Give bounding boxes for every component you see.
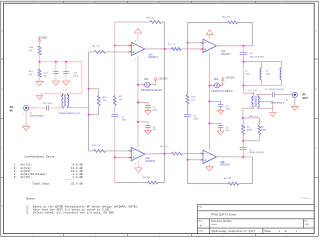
svg-text:FERRITE BEAD: FERRITE BEAD bbox=[211, 89, 232, 93]
power V+ U1A bbox=[135, 28, 142, 33]
junction bbox=[186, 42, 244, 47]
svg-text:3: 3 bbox=[159, 235, 160, 237]
svg-text:4: 4 bbox=[135, 164, 136, 166]
inductor L3 bbox=[266, 62, 282, 86]
svg-text:FB2: FB2 bbox=[214, 79, 219, 81]
wire bbox=[115, 182, 148, 184]
svg-text:100n: 100n bbox=[153, 110, 159, 112]
pin bbox=[213, 85, 221, 86]
svg-text:R5 511: R5 511 bbox=[223, 17, 231, 19]
op-amp U2B bbox=[200, 150, 231, 166]
svg-text:Sheet: Sheet bbox=[264, 230, 271, 233]
capacitor C1 bbox=[111, 115, 127, 122]
wire bbox=[294, 97, 296, 106]
svg-text:FB1: FB1 bbox=[144, 79, 149, 81]
resistor R3 bbox=[146, 17, 161, 23]
resistor R1 bbox=[242, 118, 253, 141]
svg-text:C13 100n: C13 100n bbox=[42, 103, 53, 105]
ground bbox=[217, 131, 223, 135]
wire bbox=[210, 84, 215, 86]
svg-text:R3 511: R3 511 bbox=[146, 17, 154, 19]
svg-text:3. Unless noted, all resistor: 3. Unless noted, all resistors are 1/8 w… bbox=[26, 211, 115, 215]
resistor R4 bbox=[143, 177, 158, 184]
ground bbox=[62, 81, 69, 85]
resistor R8 bbox=[161, 146, 182, 155]
resistor R6 bbox=[224, 178, 239, 185]
wire bbox=[89, 114, 99, 116]
wire bbox=[209, 164, 211, 167]
svg-text:+12VDC: +12VDC bbox=[37, 35, 47, 39]
wire bbox=[115, 156, 130, 158]
svg-text:4: 4 bbox=[260, 92, 261, 94]
op-amp U2A bbox=[200, 39, 232, 56]
wire bbox=[209, 53, 211, 151]
svg-text:100n: 100n bbox=[193, 119, 199, 121]
transformer T5 bbox=[248, 90, 261, 118]
svg-text:Rev: Rev bbox=[304, 221, 308, 223]
svg-text:8: 8 bbox=[135, 41, 136, 43]
pin bbox=[202, 153, 203, 161]
wire bbox=[182, 153, 203, 155]
capacitor C8 bbox=[240, 53, 265, 59]
wire bbox=[243, 92, 253, 94]
svg-text:Wednesday, September 27, 2017: Wednesday, September 27, 2017 bbox=[212, 229, 256, 233]
capacitor C5 bbox=[265, 89, 284, 97]
wire bbox=[114, 105, 116, 114]
ferrite bead FB1 bbox=[141, 79, 162, 92]
wire bbox=[164, 22, 166, 183]
wire bbox=[252, 157, 254, 184]
svg-text:SMA FEMALE: SMA FEMALE bbox=[30, 115, 45, 118]
junction bbox=[242, 117, 244, 142]
wire bbox=[258, 107, 273, 109]
svg-text:3: 3 bbox=[128, 158, 129, 160]
svg-text:C5 100N 1210 PKG: C5 100N 1210 PKG bbox=[265, 89, 284, 91]
svg-text:2: 2 bbox=[260, 99, 261, 101]
wire bbox=[138, 84, 145, 86]
svg-text:R10 22: R10 22 bbox=[92, 145, 100, 147]
capacitor C7 bbox=[138, 102, 158, 111]
op-amp U1B bbox=[128, 147, 156, 166]
svg-text:100n: 100n bbox=[122, 120, 128, 122]
wire bbox=[188, 42, 203, 44]
wire bbox=[88, 52, 90, 151]
svg-text:IN: IN bbox=[10, 108, 13, 112]
svg-text:Document Number: Document Number bbox=[211, 220, 232, 223]
wire bbox=[137, 56, 139, 148]
svg-text:3: 3 bbox=[128, 45, 129, 47]
wire bbox=[158, 182, 165, 184]
svg-text:4: 4 bbox=[135, 59, 136, 61]
text intermediary gains bbox=[14, 155, 83, 186]
ferrite bead FB2 bbox=[211, 79, 232, 93]
svg-text:R6 511: R6 511 bbox=[224, 178, 232, 180]
wire bbox=[243, 61, 281, 63]
pin bbox=[130, 150, 131, 158]
power +12VDC FB1 bbox=[154, 76, 167, 80]
svg-text:100u: 100u bbox=[266, 74, 272, 76]
svg-text:------: ------ bbox=[14, 179, 75, 182]
pin bbox=[143, 84, 151, 85]
svg-text:OPA2674: OPA2674 bbox=[148, 56, 159, 59]
capacitor C13 bbox=[42, 103, 53, 111]
wire bbox=[217, 45, 253, 47]
svg-text:7: 7 bbox=[146, 152, 147, 154]
svg-text:4: 4 bbox=[95, 235, 96, 237]
wire bbox=[39, 77, 41, 81]
svg-text:5: 5 bbox=[32, 235, 33, 237]
resistor R14 bbox=[29, 46, 41, 55]
svg-text:R7 22: R7 22 bbox=[168, 44, 176, 46]
power +12VDC left bbox=[37, 35, 47, 45]
svg-text:<Doc>: <Doc> bbox=[211, 223, 218, 226]
svg-text:100u: 100u bbox=[245, 74, 251, 76]
resistor R7 bbox=[168, 44, 181, 50]
wire bbox=[209, 35, 211, 40]
wire bbox=[115, 21, 150, 23]
wire bbox=[258, 101, 273, 112]
wire bbox=[137, 33, 139, 42]
svg-text:4: 4 bbox=[95, 2, 96, 4]
wire bbox=[242, 150, 244, 157]
junction bbox=[208, 84, 210, 124]
svg-text:1: 1 bbox=[286, 235, 287, 237]
resistor R5 bbox=[223, 17, 238, 24]
wire bbox=[105, 150, 130, 152]
junction bbox=[88, 88, 90, 116]
svg-text:DNL 1210 PKG: DNL 1210 PKG bbox=[250, 57, 265, 59]
capacitor C10 bbox=[44, 62, 59, 81]
svg-text:6: 6 bbox=[200, 153, 201, 155]
wire bbox=[145, 48, 172, 50]
wire bbox=[242, 55, 244, 94]
ground bbox=[217, 110, 223, 114]
svg-text:R4 511: R4 511 bbox=[143, 177, 151, 179]
wire bbox=[243, 108, 253, 118]
svg-text:1+1 : 1.31: 1+1 : 1.31 bbox=[248, 90, 258, 92]
svg-text:2: 2 bbox=[23, 114, 24, 116]
title block bbox=[198, 204, 315, 233]
svg-text:Total Gain: 32.0 dB: Total Gain: 32.0 dB bbox=[14, 182, 83, 186]
wire bbox=[188, 183, 229, 185]
pin bbox=[202, 42, 203, 50]
svg-text:100n: 100n bbox=[226, 109, 232, 111]
wire bbox=[114, 22, 116, 96]
wire bbox=[188, 21, 228, 23]
junction bbox=[114, 153, 166, 159]
ground bbox=[270, 113, 277, 117]
wire bbox=[89, 51, 95, 53]
svg-text:R9 22: R9 22 bbox=[92, 46, 100, 48]
capacitor C11 bbox=[63, 62, 79, 81]
svg-text:of: of bbox=[285, 230, 287, 233]
junction bbox=[114, 45, 166, 50]
wire bbox=[40, 61, 82, 63]
wire bbox=[115, 45, 130, 47]
junction bbox=[137, 84, 139, 123]
ground bbox=[292, 106, 299, 110]
wire bbox=[67, 107, 88, 109]
svg-text:Date:: Date: bbox=[198, 230, 203, 233]
svg-text:100n: 100n bbox=[73, 75, 79, 77]
wire bbox=[89, 88, 99, 90]
svg-text:2: 2 bbox=[222, 2, 223, 4]
svg-text:3: 3 bbox=[159, 2, 160, 4]
capacitor C2 bbox=[240, 148, 265, 155]
svg-text:FPGA SDR TX Driver: FPGA SDR TX Driver bbox=[211, 213, 236, 217]
capacitor C9 bbox=[184, 115, 199, 121]
ground bbox=[52, 81, 59, 85]
svg-text:1: 1 bbox=[146, 47, 147, 49]
resistor R10 bbox=[92, 145, 105, 152]
ground bbox=[145, 111, 151, 115]
pin bbox=[130, 45, 131, 53]
wire bbox=[243, 140, 259, 142]
svg-text:2: 2 bbox=[128, 150, 129, 152]
wire bbox=[138, 161, 140, 168]
pin bbox=[253, 93, 293, 109]
svg-text:5: 5 bbox=[32, 2, 33, 4]
power V+ U2A bbox=[206, 30, 213, 35]
svg-text:OPA2674: OPA2674 bbox=[145, 160, 156, 163]
text notes bbox=[26, 198, 138, 215]
wire bbox=[243, 85, 281, 87]
wire bbox=[187, 104, 189, 114]
wire bbox=[220, 80, 223, 85]
inductor L2 bbox=[245, 62, 261, 86]
svg-text:1: 1 bbox=[290, 92, 291, 94]
wire bbox=[188, 159, 203, 161]
wire bbox=[114, 117, 116, 183]
resistor R9 bbox=[92, 46, 105, 53]
wire bbox=[258, 94, 273, 96]
wire bbox=[145, 153, 172, 155]
svg-text:5: 5 bbox=[200, 161, 201, 163]
wire bbox=[275, 94, 292, 96]
wire bbox=[89, 150, 94, 152]
connector J1 bbox=[23, 105, 45, 117]
junction bbox=[186, 156, 244, 161]
capacitor C4 bbox=[210, 101, 232, 110]
annotation KK7B bbox=[302, 198, 311, 200]
wire bbox=[242, 141, 244, 148]
resistor R15 bbox=[97, 89, 107, 115]
svg-text:TRANSFORMER T4-6T: TRANSFORMER T4-6T bbox=[58, 112, 81, 115]
svg-text:A: A bbox=[200, 223, 202, 227]
ground bbox=[145, 130, 151, 134]
svg-text:2: 2 bbox=[128, 53, 129, 55]
svg-text:ADT1.5-1: ADT1.5-1 bbox=[249, 115, 259, 118]
ground bbox=[135, 168, 142, 172]
svg-text:OUT: OUT bbox=[302, 96, 308, 100]
svg-text:5: 5 bbox=[200, 42, 201, 44]
wire bbox=[181, 48, 203, 50]
wire bbox=[187, 22, 189, 94]
wire bbox=[243, 117, 260, 119]
svg-text:U2A: U2A bbox=[221, 50, 226, 53]
op-amp U1A bbox=[128, 41, 159, 61]
svg-text:6: 6 bbox=[200, 50, 201, 52]
wire bbox=[49, 107, 64, 109]
wire bbox=[105, 51, 129, 53]
ground bbox=[36, 81, 43, 85]
label RF OUT bbox=[302, 93, 308, 100]
svg-text:1: 1 bbox=[218, 155, 219, 157]
junction bbox=[242, 61, 244, 87]
svg-text:2: 2 bbox=[222, 235, 223, 237]
wire bbox=[238, 21, 253, 23]
svg-text:100N 1210 PKG: 100N 1210 PKG bbox=[249, 152, 265, 154]
capacitor C6 bbox=[138, 122, 157, 131]
svg-text:+12VDC: +12VDC bbox=[158, 76, 168, 80]
wire bbox=[239, 183, 253, 185]
capacitor C3 bbox=[210, 123, 231, 131]
ground bbox=[206, 167, 213, 171]
svg-text:U1A: U1A bbox=[148, 53, 153, 56]
wire bbox=[67, 62, 82, 94]
svg-text:50R0: 50R0 bbox=[261, 129, 267, 131]
svg-text:50R0: 50R0 bbox=[247, 129, 253, 131]
svg-text:R8 22: R8 22 bbox=[161, 146, 169, 148]
connector J2 bbox=[270, 92, 297, 105]
wire bbox=[187, 117, 189, 184]
resistor R13 bbox=[186, 95, 196, 104]
resistor R2 bbox=[258, 118, 267, 141]
svg-text:OPA2674: OPA2674 bbox=[221, 53, 232, 56]
svg-text:OPA2674: OPA2674 bbox=[220, 164, 231, 167]
svg-text:SMA FEMALE: SMA FEMALE bbox=[270, 102, 285, 105]
svg-text:FERRITE BEAD: FERRITE BEAD bbox=[141, 88, 162, 92]
wire bbox=[25, 111, 27, 127]
wire bbox=[242, 46, 244, 53]
svg-text:Intermediary Gains:: Intermediary Gains: bbox=[24, 155, 56, 159]
wire bbox=[217, 156, 253, 158]
junction bbox=[39, 61, 67, 63]
wire bbox=[150, 80, 156, 85]
wire bbox=[29, 107, 47, 109]
wire bbox=[40, 93, 64, 95]
wire bbox=[252, 22, 254, 45]
wire bbox=[39, 55, 41, 69]
svg-text:KK7B /s: KK7B /s bbox=[302, 198, 311, 200]
transformer T1 bbox=[58, 90, 81, 115]
svg-text:6: 6 bbox=[60, 106, 61, 108]
ground bbox=[36, 95, 43, 99]
resistor R11 bbox=[113, 96, 123, 106]
power +12VDC FB2 bbox=[222, 76, 235, 81]
label RF IN bbox=[10, 105, 14, 112]
svg-text:Notes:: Notes: bbox=[26, 198, 36, 201]
ground bbox=[23, 126, 30, 130]
svg-text:1: 1 bbox=[286, 2, 287, 4]
wire bbox=[161, 21, 164, 23]
svg-text:+12VDC: +12VDC bbox=[225, 76, 235, 80]
pin bbox=[28, 93, 68, 108]
resistor R12 bbox=[29, 69, 41, 77]
